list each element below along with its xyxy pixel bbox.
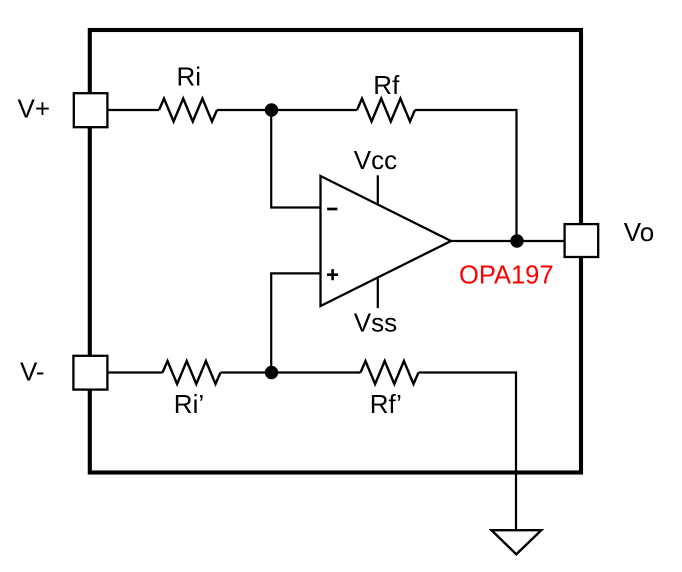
svg-text:Vss: Vss: [354, 307, 397, 337]
enclosure box: [90, 30, 581, 473]
wire: V+ terminal to Ri: [108, 109, 160, 111]
node B (junction dot, noninverting input net): [265, 366, 278, 379]
ground: [492, 530, 542, 554]
svg-text:Vo: Vo: [624, 217, 654, 247]
terminal Vo (output port square): [565, 224, 599, 257]
node C (output junction dot): [510, 234, 523, 247]
svg-text:Vcc: Vcc: [354, 145, 397, 175]
wire: V- terminal to Ri': [108, 371, 163, 373]
svg-text:Rf: Rf: [373, 70, 400, 100]
svg-text:Rf’: Rf’: [370, 389, 402, 419]
pin label: noninverting input plus sign: [327, 269, 338, 280]
wire: Ri' to node B and on to Rf': [221, 371, 361, 373]
pin label: inverting input minus sign: [327, 208, 337, 211]
resistor Ri': [163, 361, 221, 384]
svg-text:Ri’: Ri’: [174, 389, 204, 419]
terminal V- (input port square): [73, 356, 107, 390]
wire: op-amp output to Vo terminal: [451, 240, 565, 242]
wire: Rf to feedback corner: [415, 109, 517, 111]
wire: Ri to node A and on to Rf: [217, 109, 357, 111]
wire: Rf' to ground corner: [419, 371, 517, 373]
wire: feedback vertical down to output node: [515, 109, 517, 241]
svg-text:OPA197: OPA197: [459, 262, 554, 290]
resistor Ri: [159, 99, 217, 122]
terminal V+ (input port square): [74, 93, 108, 127]
wire: node A down to inverting input: [271, 110, 320, 208]
wire: Vcc pin lead: [377, 175, 379, 205]
wire: vertical down to ground symbol: [515, 371, 517, 529]
wire: noninverting input over and down to node B: [271, 273, 320, 372]
wire: Vss pin lead: [377, 278, 379, 309]
svg-text:V+: V+: [18, 94, 51, 124]
resistor Rf: [357, 99, 415, 122]
node A (junction dot, inverting input net): [265, 103, 278, 116]
resistor Rf': [361, 361, 419, 384]
svg-text:Ri: Ri: [177, 61, 202, 91]
svg-text:V-: V-: [20, 357, 45, 387]
op-amp U1 (OPA197): [321, 176, 452, 306]
